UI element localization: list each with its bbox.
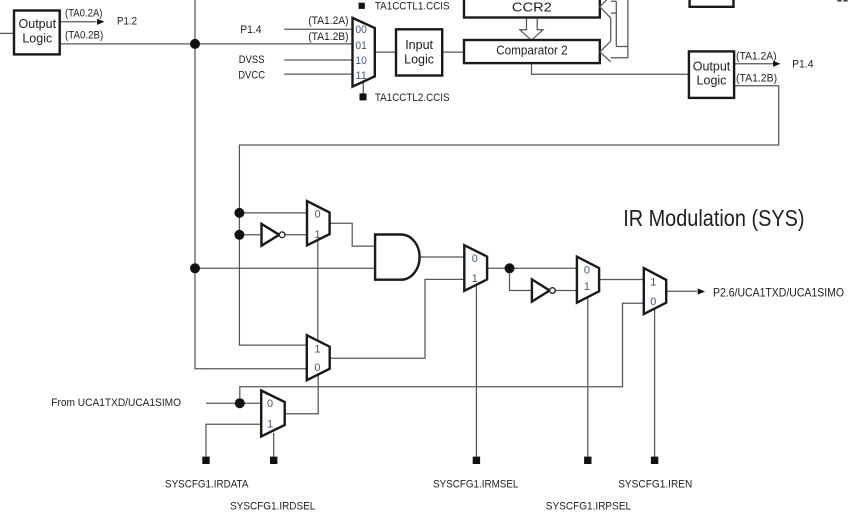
hollow bus arrow into Comparator 2 right edge	[600, 41, 611, 62]
svg-text:P1.4: P1.4	[240, 24, 262, 36]
wire AND gate output to mux B input 0	[420, 256, 465, 258]
node junction dot after mux B	[505, 263, 515, 273]
svg-text:SYSCFG1.IRPSEL: SYSCFG1.IRPSEL	[546, 501, 631, 513]
svg-text:0: 0	[650, 296, 656, 308]
mux D (IRDSEL mux, inputs 0/1)	[261, 391, 285, 437]
svg-text:(TA1.2A): (TA1.2A)	[308, 15, 348, 27]
svg-text:P2.6/UCA1TXD/UCA1SIMO: P2.6/UCA1TXD/UCA1SIMO	[713, 285, 844, 299]
svg-text:11: 11	[355, 70, 367, 82]
box Output Logic U2	[689, 51, 734, 98]
svg-text:1: 1	[650, 276, 656, 288]
wire mux C output up to mux B input 1	[330, 279, 465, 358]
svg-text:Logic: Logic	[22, 32, 52, 46]
node junction dot x=239 mux A row	[234, 208, 244, 218]
wire main vertical net at x=195 down to mux C input 0	[195, 0, 307, 369]
svg-text:IR Modulation (SYS): IR Modulation (SYS)	[623, 205, 804, 231]
square terminal SYSCFG1.IRDSEL	[270, 457, 277, 464]
wire into Output Logic U1 from left edge	[0, 32, 14, 34]
wire mux F output to P2.6 arrow	[666, 290, 697, 292]
wire DVSS to mux G input 10	[284, 59, 351, 61]
arrowhead to P1.4	[773, 61, 780, 67]
svg-text:P1.4: P1.4	[792, 58, 814, 70]
svg-text:0: 0	[472, 253, 478, 265]
wire node x239 to inverter N1 input	[239, 234, 261, 236]
wire From UCA1TXD/UCA1SIMO to mux D input 0	[206, 402, 261, 404]
svg-text:1: 1	[472, 273, 478, 285]
svg-text:01: 01	[355, 40, 367, 52]
hollow bus arrow into CCR2 right edge	[600, 0, 617, 18]
svg-text:0: 0	[584, 265, 590, 277]
svg-text:10: 10	[355, 55, 367, 67]
wire Comparator 2 output to Output Logic U2	[532, 63, 689, 74]
svg-text:SYSCFG1.IREN: SYSCFG1.IREN	[618, 478, 692, 490]
svg-text:Comparator 2: Comparator 2	[496, 43, 567, 57]
wire node to inverter N2 input	[510, 268, 532, 290]
wire AND gate lower input from node x=195	[195, 267, 375, 269]
svg-text:1: 1	[315, 229, 321, 241]
node junction dot on UCA1TXD line	[235, 398, 245, 408]
wire inverter N2 output to mux E input 1	[555, 290, 577, 292]
svg-text:0: 0	[314, 362, 320, 374]
square terminal SYSCFG1.IRMSEL	[473, 457, 480, 464]
box CCR2 (top cropped)	[464, 0, 600, 18]
square terminal TA1CCTL2.CCIS	[360, 93, 367, 100]
svg-text:(TA0.2B): (TA0.2B)	[65, 29, 103, 41]
hollow bus outer rail	[611, 0, 628, 58]
wire TA0.2A from U1 to P1.2 arrow	[60, 21, 97, 23]
mux F (IREN mux, inputs 1/0)	[644, 268, 666, 314]
svg-text:SYSCFG1.IRMSEL: SYSCFG1.IRMSEL	[433, 478, 518, 490]
wire Input Logic to Comparator 2	[442, 51, 464, 53]
wire bypass from node at mux D input up and right to mux F input 0	[240, 303, 644, 403]
svg-text:(TA1.2A): (TA1.2A)	[736, 50, 777, 62]
square terminal SYSCFG1.IRDATA	[202, 457, 209, 464]
svg-text:(TA1.2B): (TA1.2B)	[308, 31, 348, 43]
node junction dot at x=195 AND row	[190, 263, 200, 273]
mux C (inputs 1/0)	[307, 335, 330, 380]
wire mux G output to Input Logic	[376, 51, 397, 53]
svg-text:DVCC: DVCC	[238, 69, 265, 81]
hollow arrow CCR2 down to Comparator 2	[520, 19, 543, 41]
node junction dot x=239 inverter row	[234, 230, 244, 240]
wire SYSCFG1.IRMSEL to mux B select	[475, 285, 477, 456]
svg-text:0: 0	[267, 398, 273, 410]
svg-text:Input: Input	[405, 38, 433, 52]
svg-text:0: 0	[315, 209, 321, 221]
svg-text:Output: Output	[693, 59, 731, 73]
svg-text:SYSCFG1.IRDATA: SYSCFG1.IRDATA	[165, 478, 249, 490]
node junction dot on TA0.2B at x=195	[190, 39, 200, 49]
mux B (IRMSEL mux, inputs 0/1)	[464, 245, 487, 291]
box Output Logic U1	[14, 11, 60, 55]
svg-text:DVSS: DVSS	[239, 54, 265, 66]
svg-text:1: 1	[584, 281, 590, 293]
svg-text:P1.2: P1.2	[117, 15, 137, 27]
wire inverter N1 output to mux A input 1	[285, 234, 307, 236]
wire SYSCFG1.IRDATA to mux D input 1	[206, 424, 261, 456]
svg-text:TA1CCTL2.CCIS: TA1CCTL2.CCIS	[375, 92, 450, 104]
svg-text:Logic: Logic	[404, 52, 434, 66]
wire SYSCFG1.IRDSEL to mux D select	[273, 433, 275, 457]
cropped glyph marks top right	[837, 0, 841, 2]
wire mux D output to mux C select	[285, 375, 319, 414]
svg-text:(TA0.2A): (TA0.2A)	[65, 7, 103, 19]
inverter N2	[532, 279, 550, 301]
svg-text:(TA1.2B): (TA1.2B)	[736, 72, 777, 84]
wire node x239 to mux A input 0	[239, 212, 307, 214]
wire SYSCFG1.IRPSEL to mux E select	[587, 297, 589, 456]
svg-text:From UCA1TXD/UCA1SIMO: From UCA1TXD/UCA1SIMO	[51, 397, 181, 409]
wire TA1.2B feedback from U2 down-left to mux C input 1	[239, 86, 778, 345]
arrowhead to P2.6	[698, 288, 705, 294]
svg-text:1: 1	[267, 419, 273, 431]
wire mux E output to mux F input 1	[599, 279, 644, 281]
wire TA1.2A from U2 to P1.4 arrow	[734, 63, 773, 65]
wire select chain mux A bottom to mux C top	[317, 241, 319, 341]
box Output Logic (CCR1 stage, cropped at top edge)	[690, 0, 734, 7]
mux E (IRPSEL mux, inputs 0/1)	[577, 257, 599, 303]
wire P1.4 to mux G input 00	[284, 28, 351, 30]
box Input Logic	[396, 29, 442, 75]
box Comparator 2	[464, 40, 600, 63]
mux A (carrier polarity mux, inputs 0/1)	[307, 201, 330, 245]
wire TA0.2B from U1 to mux G input 01 (through node at x=195)	[60, 43, 352, 45]
svg-text:CCR2: CCR2	[512, 1, 552, 15]
svg-text:1: 1	[314, 343, 320, 355]
square terminal SYSCFG1.IRPSEL	[584, 457, 591, 464]
svg-text:SYSCFG1.IRDSEL: SYSCFG1.IRDSEL	[230, 501, 315, 513]
svg-text:Logic: Logic	[697, 74, 727, 88]
arrowhead to P1.2	[97, 19, 104, 25]
mux G (TA1CCTL2.CCIS 4-input mux)	[353, 18, 375, 87]
wire DVCC to mux G input 11	[284, 73, 351, 75]
svg-text:00: 00	[355, 24, 367, 36]
wire mux B output to mux E input 0	[487, 267, 577, 269]
wire SYSCFG1.IREN to mux F select	[654, 309, 656, 457]
AND gate	[375, 235, 420, 280]
hollow bus vertical segments right of CCR2	[611, 1, 617, 46]
svg-text:Output: Output	[19, 17, 57, 31]
wire mux G select to TA1CCTL2.CCIS square	[362, 81, 364, 94]
inverter N1	[262, 224, 280, 246]
square terminal SYSCFG1.IREN	[651, 457, 658, 464]
square terminal TA1CCTL1.CCIS	[359, 3, 365, 9]
svg-text:TA1CCTL1.CCIS: TA1CCTL1.CCIS	[375, 1, 450, 13]
wire mux A output to AND gate upper input	[330, 223, 376, 246]
